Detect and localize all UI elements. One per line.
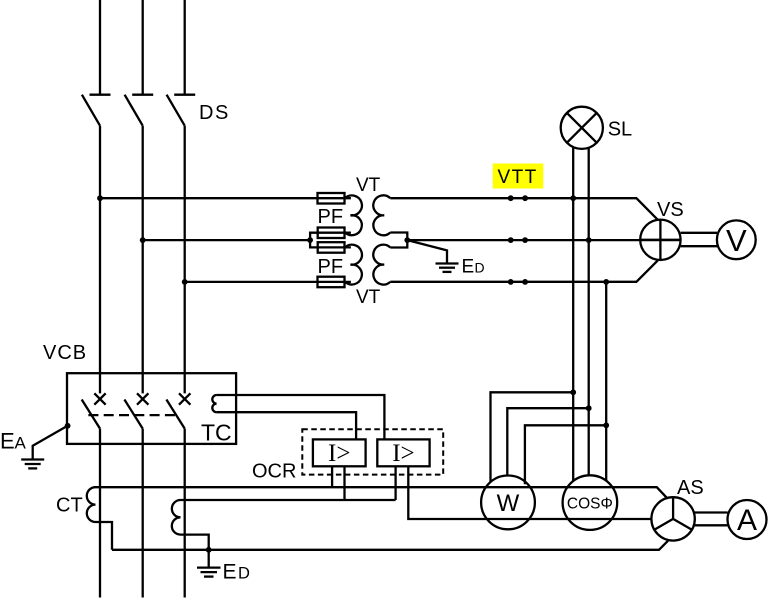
svg-text:VT: VT — [356, 287, 381, 308]
node junction phase1-wire1 — [97, 195, 103, 201]
svg-text:PF: PF — [318, 256, 344, 278]
svg-text:AS: AS — [677, 477, 704, 499]
svg-text:A: A — [15, 434, 27, 453]
ground ED at CT — [197, 550, 221, 577]
svg-text:PF: PF — [318, 206, 344, 228]
VTT terminal dots line2 — [508, 237, 528, 243]
current transformer CT2 winding — [172, 500, 181, 535]
wire CT2 top lead to OCR — [181, 499, 396, 501]
svg-text:I>: I> — [392, 440, 414, 467]
wire phase1 bus bottom segment — [99, 429, 101, 598]
svg-text:CT: CT — [56, 495, 83, 517]
wire CT1 bottom lead — [96, 522, 113, 550]
node junction phase3-wire3 — [182, 279, 188, 285]
breaker pole 2 contact X — [137, 393, 148, 404]
VTT test terminal highlight — [493, 164, 544, 189]
breaker pole 3 contact X — [179, 393, 190, 404]
wire AS to A meter pair — [694, 513, 728, 526]
node junction fuse branch — [307, 237, 313, 243]
fuse PF F3 — [318, 242, 345, 253]
wire TC lead 2 to OCR relay 1 — [217, 412, 357, 439]
wire TC lead 1 to OCR relay 2 — [217, 395, 385, 439]
relay element I> box 1 — [313, 439, 366, 466]
node junction v3 branch — [603, 422, 609, 428]
wire phase2 bus middle segment — [142, 126, 144, 394]
trip coil TC — [212, 395, 216, 412]
wire VT1 secondary bottom to common node and VT2 secondary top — [390, 233, 407, 248]
wire W branch 3 — [525, 425, 606, 484]
wire W branch 2 — [507, 408, 588, 475]
wire phase1 bus top segment — [99, 0, 101, 95]
ammeter selector switch AS — [651, 497, 694, 540]
wire CT1 top lead to AS — [96, 487, 668, 498]
wire relay2 stub to AS line — [408, 466, 651, 519]
wire CT2 bottom lead — [181, 535, 209, 550]
wire phase1 bus middle segment — [99, 126, 101, 394]
wire relay1 stub to line A — [331, 466, 333, 487]
wire branch to fuse F3 — [310, 240, 351, 247]
node junction v1-line1 — [570, 195, 576, 201]
node junction v2-line2 — [586, 237, 592, 243]
svg-text:D: D — [238, 564, 250, 582]
wattmeter W — [481, 476, 535, 530]
power factor meter COSPHI — [563, 475, 618, 530]
wire meter vertical 3 — [605, 282, 607, 481]
node CT common ground junction — [206, 547, 212, 553]
transformer VT1 secondary winding — [373, 195, 390, 235]
breaker linkage dashed — [88, 414, 176, 416]
svg-text:E: E — [223, 560, 237, 583]
current transformer CT1 winding — [87, 487, 96, 522]
svg-text:D: D — [475, 259, 485, 275]
disconnect switch DS pole 1 — [82, 95, 111, 126]
wire branch to fuse F2 — [310, 233, 351, 240]
wire relay1 stub to line B — [343, 466, 345, 500]
voltmeter V — [717, 220, 756, 259]
wire phase2 bus top segment — [142, 0, 144, 95]
circuit breaker VCB box — [67, 373, 236, 444]
node junction phase2-wire2 — [140, 237, 146, 243]
breaker pole 3 blade — [166, 400, 184, 429]
svg-text:VS: VS — [657, 199, 684, 221]
ground ED at VT secondary — [407, 240, 458, 272]
wire phase3 to fuse F4 — [185, 281, 351, 283]
breaker pole 1 blade — [82, 400, 100, 429]
label ED at VT — [462, 256, 485, 277]
wire VS to V meter pair — [681, 233, 717, 246]
svg-text:TC: TC — [201, 420, 232, 446]
wire phase3 bus top segment — [184, 0, 186, 95]
svg-text:VCB: VCB — [43, 342, 87, 364]
fuse PF F4 — [318, 277, 345, 288]
svg-text:COSΦ: COSΦ — [567, 495, 613, 512]
transformer VT1 primary winding — [344, 195, 362, 235]
node junction v2 branch — [586, 405, 592, 411]
svg-text:VTT: VTT — [498, 167, 538, 188]
label EA — [0, 429, 27, 454]
transformer VT2 secondary winding — [373, 245, 390, 285]
relay OCR dashed enclosure — [302, 429, 443, 474]
svg-text:W: W — [497, 490, 520, 517]
voltage selector switch VS — [640, 220, 680, 260]
breaker pole 1 contact X — [94, 393, 105, 404]
wire secondary line 3 — [390, 260, 658, 282]
svg-text:I>: I> — [328, 440, 350, 467]
svg-text:DS: DS — [199, 102, 230, 124]
breaker pole 2 blade — [124, 400, 142, 429]
wire SL lead / meter vertical 2 — [588, 147, 590, 475]
node junction v3-line3 — [603, 279, 609, 285]
fuse PF F2 — [318, 228, 345, 239]
ground EA — [21, 426, 67, 469]
wire phase2 bus bottom segment — [142, 429, 144, 598]
wire secondary line 1 — [390, 198, 658, 220]
wire phase3 bus bottom segment — [184, 429, 186, 598]
wire W branch 1 — [491, 392, 574, 481]
wire phase3 bus middle segment — [184, 126, 186, 394]
wire CT return line to AS — [112, 540, 669, 550]
VTT terminal dots line1 — [508, 195, 528, 201]
svg-text:E: E — [462, 256, 475, 277]
relay element I> box 2 — [377, 439, 429, 466]
transformer VT2 primary winding — [344, 245, 362, 285]
wire phase1 to fuse F1 — [100, 197, 351, 199]
lamp SL — [561, 107, 603, 149]
svg-text:VT: VT — [356, 175, 381, 196]
node VT secondary common point — [404, 237, 410, 243]
svg-text:A: A — [737, 504, 757, 537]
label ED at CT — [223, 560, 251, 583]
svg-text:E: E — [0, 429, 15, 454]
wire secondary line 2 — [407, 239, 680, 241]
svg-text:V: V — [726, 223, 747, 258]
wire phase2 to VT junction — [143, 239, 310, 241]
fuse PF F1 — [318, 193, 345, 204]
node EA tap on VCB — [65, 423, 71, 429]
ammeter A — [728, 500, 767, 539]
wire relay2 stub to line B — [394, 466, 396, 500]
disconnect switch DS pole 2 — [125, 95, 154, 126]
svg-text:OCR: OCR — [252, 461, 296, 483]
wire SL lead / meter vertical 1 — [572, 147, 574, 481]
disconnect switch DS pole 3 — [167, 95, 196, 126]
node junction v1 branch — [570, 389, 576, 395]
VTT terminal dots line3 — [508, 279, 528, 285]
svg-text:SL: SL — [608, 118, 632, 140]
